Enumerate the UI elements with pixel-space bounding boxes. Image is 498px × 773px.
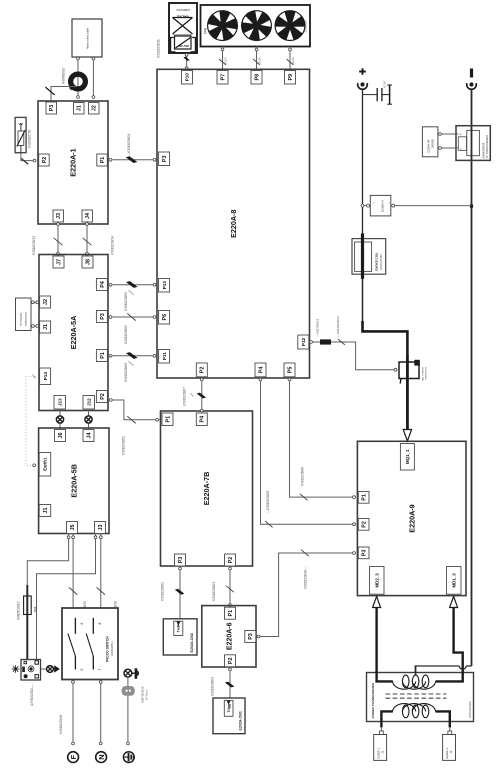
svg-text:—K3018238/12: —K3018238/12 (336, 316, 340, 337)
svg-text:E220A-8: E220A-8 (229, 210, 238, 238)
svg-text:A376002002—: A376002002— (30, 684, 34, 706)
connection circle at P2 (33, 159, 36, 162)
svg-text:F: F (69, 754, 78, 759)
slash P3-P6 (127, 313, 135, 320)
wire 7B P2 to E220A-6 P1 (229, 566, 231, 608)
svg-text:J1: J1 (77, 105, 83, 111)
port P1 of E220A-7B (162, 413, 173, 426)
wire hf box to J1 (31, 325, 39, 327)
svg-text:P5: P5 (287, 367, 293, 374)
svg-text:HF TRANSFORMER: HF TRANSFORMER (486, 135, 489, 158)
circles on P3-P3 wire (257, 635, 260, 638)
port MQ1_1 of E220A-9 (400, 444, 414, 471)
port Trigg of E202A-CN1 (224, 700, 233, 716)
svg-text:E220A-5A: E220A-5A (69, 316, 78, 350)
earth bar symbol (132, 668, 139, 679)
wire mains-cable to J1 (77, 57, 79, 99)
svg-text:J4: J4 (86, 433, 92, 439)
wire fan3 to P9 (289, 47, 291, 72)
wire minus to center tap (466, 665, 472, 667)
svg-text:N: N (97, 754, 106, 759)
svg-text:P2: P2 (228, 557, 234, 564)
svg-text:J7: J7 (56, 259, 62, 265)
svg-text:J1: J1 (380, 750, 384, 753)
svg-text:P4: P4 (200, 416, 206, 423)
svg-text:P9: P9 (288, 74, 294, 81)
block E220A-8 (157, 69, 310, 378)
connection circle valve wire (185, 53, 188, 56)
svg-text:5: 5 (80, 668, 84, 670)
port J4 of E220A-5B (83, 430, 94, 442)
port P1 of E220A-6 (225, 607, 236, 619)
primary winding (393, 704, 416, 712)
circle sense right (392, 204, 395, 207)
svg-text:HF TRANSF.: HF TRANSF. (20, 312, 23, 326)
svg-text:A39A0290026: A39A0290026 (25, 311, 28, 326)
port P2 of E220A-5A (96, 391, 107, 403)
terminal N (96, 752, 107, 763)
slash on P3-P3 wire (301, 550, 309, 556)
wire minus bus (471, 90, 473, 666)
primary lead right (436, 711, 450, 727)
svg-text:P12: P12 (301, 337, 306, 346)
wire J5a to fuse (27, 534, 68, 590)
svg-text:Mains transf.cable: Mains transf.cable (86, 27, 90, 49)
port P8 of E220A-8 (251, 71, 262, 85)
svg-text:A39B0023CP: A39B0023CP (176, 8, 190, 11)
svg-text:E220A-6: E220A-6 (226, 622, 233, 650)
box E202A-CN1 (213, 698, 245, 734)
port P13 of E220A-8 (159, 279, 170, 293)
wire switch to F (72, 680, 74, 744)
port P1 of E220A-5A (96, 350, 107, 362)
block E220A-7B (161, 411, 253, 566)
port P2 of E220A-7B (225, 554, 236, 566)
wire J3 to J7 (57, 222, 59, 256)
wire 5A P3 to P6 (108, 316, 157, 318)
port P9 of E220A-8 (285, 71, 296, 85)
dotted earth line P14-Earth1 (26, 377, 39, 466)
circle+slash fan1 wire (221, 48, 224, 51)
terminal minus (467, 82, 477, 89)
choke coil box (352, 239, 386, 275)
wire P12 with bead (309, 341, 320, 343)
slash on 7B P2 wire (226, 586, 234, 592)
svg-text:—K3018238/03: —K3018238/03 (266, 491, 270, 513)
port P10 of E220A-8 (182, 71, 193, 85)
port P3 of E220A-8 (159, 152, 170, 166)
svg-text:K3018230/48: K3018230/48 (59, 715, 63, 734)
twisted-pair mark P2-P4 (197, 393, 207, 399)
svg-text:K3018238/05: K3018238/05 (124, 292, 128, 311)
wire mains-cable to J2 (92, 57, 94, 99)
hf transformer box (456, 126, 490, 161)
center tap wire (415, 666, 417, 676)
port J1 of E220A-5A (40, 321, 51, 333)
fan 3 (275, 11, 305, 41)
circle+slash fan3 wire (289, 48, 292, 51)
svg-text:P7: P7 (220, 74, 226, 81)
arrow into MQ1_1 (403, 430, 411, 442)
port P1 of E220A-1 (97, 154, 108, 166)
arrow into MD2_3 (373, 596, 381, 607)
port J12 of E220A-5A (83, 396, 95, 410)
port P2 of E220A-9 (358, 519, 369, 531)
svg-text:K3018238/03: K3018238/03 (212, 582, 216, 601)
svg-text:P2: P2 (228, 658, 234, 665)
svg-text:MQ1_1: MQ1_1 (405, 449, 410, 464)
svg-text:K3018238/04: K3018238/04 (211, 677, 215, 696)
svg-text:(4 Turn): (4 Turn) (145, 690, 149, 700)
port P2 of E220A-1 (39, 154, 50, 166)
wire J13 to J6 (59, 409, 61, 430)
svg-text:P4: P4 (100, 281, 106, 288)
svg-text:K3018238/06: K3018238/06 (301, 467, 305, 486)
port P3 of E220A-6 (245, 631, 256, 643)
earth stub symbol (124, 669, 132, 677)
circles on 7B P2 wire (229, 567, 232, 570)
tick at P14 (33, 375, 36, 379)
svg-text:—K3018238/01: —K3018238/01 (127, 134, 131, 156)
svg-text:P1: P1 (100, 157, 106, 164)
svg-text:E220A-1: E220A-1 (69, 148, 78, 176)
secondary winding (393, 681, 416, 689)
flag on valve wire (183, 57, 189, 61)
svg-text:P2: P2 (42, 157, 48, 164)
port J1 of E220A-1 (74, 103, 85, 115)
port P4 of E220A-7B (196, 413, 207, 426)
svg-text:J8: J8 (85, 259, 91, 265)
svg-text:K3018238/09: K3018238/09 (124, 325, 128, 344)
thick bus through sensor (406, 355, 409, 430)
svg-text:J13: J13 (57, 398, 62, 406)
svg-text:P1: P1 (228, 610, 234, 617)
twisted-pair mark 7B P3 (175, 589, 185, 595)
thick fuse wire (26, 585, 28, 659)
valve box (169, 3, 197, 53)
svg-text:8: 8 (98, 622, 102, 624)
wire J3a jog to connector (37, 534, 96, 660)
wire component to P2 (21, 153, 35, 161)
slash on P3 stub (45, 87, 54, 95)
svg-text:Trigg: Trigg (227, 704, 231, 712)
fan box (201, 5, 311, 47)
gray slash P1-P11 (128, 361, 133, 365)
slash J5b wire (69, 587, 77, 594)
wire J5b to switch (72, 534, 74, 609)
box E202A-CN2 (163, 619, 197, 655)
port P3 of E220A-7B (175, 554, 186, 566)
node stub P3 to ferrite wire (51, 87, 78, 102)
slash on P12 wire (338, 339, 345, 345)
block E220A-6 (202, 606, 256, 667)
box E220A-1 J2 ref (443, 735, 456, 761)
choke thick bar (361, 233, 364, 279)
port Earth1 of E220A-5B (39, 453, 51, 477)
wedge Trigg (227, 701, 231, 705)
svg-text:MD2_3: MD2_3 (374, 573, 379, 588)
circles P2-7BP1 (109, 399, 112, 402)
svg-text:E220A-6: E220A-6 (381, 200, 385, 212)
hf transformer small box (16, 298, 32, 331)
thick wire MD1_3 to transformer (436, 608, 463, 682)
twisted-pair mark P4-P13 (126, 281, 138, 288)
slash on J3 wire (54, 238, 63, 245)
block E220A-5B (39, 428, 109, 534)
wire diode to hf 1 (438, 133, 458, 135)
svg-text:P13: P13 (162, 281, 167, 290)
capacitor branch wire (363, 94, 377, 96)
slash on component-P2 wire (21, 158, 28, 164)
wire fan2 to P8 (256, 47, 258, 72)
wire valve to P10 (186, 53, 188, 71)
svg-text:E202A-CN1: E202A-CN1 (239, 711, 243, 730)
svg-text:Txd4: Txd4 (177, 624, 181, 632)
svg-text:A4372000/08: A4372000/08 (468, 701, 472, 718)
svg-text:P3: P3 (178, 557, 184, 564)
circle+slash fan2 wire (255, 48, 258, 51)
wire plus bus lower (362, 279, 364, 322)
wire J3b to switch (100, 534, 102, 609)
svg-text:J1: J1 (43, 508, 49, 514)
svg-text:A431000083: A431000083 (379, 254, 383, 270)
port J2 of E220A-1 (89, 103, 100, 115)
wire fan1 to P7 (222, 47, 224, 72)
block E220A-9 (357, 441, 466, 595)
svg-text:K3018238/07: K3018238/07 (183, 387, 187, 406)
primary lead left (381, 711, 392, 727)
twisted-pair mark P2-CN1 (225, 682, 235, 688)
svg-text:P1: P1 (100, 352, 106, 359)
thick bus corner to sensor (363, 321, 408, 430)
ferrite ring A39880019 (69, 74, 85, 90)
circles hf box wires (32, 301, 35, 304)
svg-text:P2: P2 (200, 367, 206, 374)
wire E220A-6 P3 to E220A-9 P3 (256, 553, 356, 637)
svg-text:K3018238/08: K3018238/08 (124, 363, 128, 382)
slash on P4-P2 wire (265, 521, 273, 527)
svg-text:CHOKE COIL: CHOKE COIL (375, 252, 379, 271)
port P3 of E220A-9 (358, 547, 369, 559)
switch contact 8-7 (86, 618, 93, 670)
svg-text:J4: J4 (85, 213, 91, 219)
svg-text:—A55700822: —A55700822 (316, 318, 320, 337)
port MD2_3 of E220A-9 (370, 567, 385, 595)
star symbol (12, 665, 20, 673)
port J4 of E220A-1 (82, 210, 93, 222)
circles diode wires (439, 133, 442, 136)
svg-text:K3018238/11: K3018238/11 (157, 39, 161, 58)
svg-text:E220A-7B: E220A-7B (202, 472, 211, 506)
svg-text:K3018238/02: K3018238/02 (161, 582, 165, 601)
gray slash P4-P13 (128, 290, 133, 294)
svg-text:K4200B2700: K4200B2700 (28, 129, 32, 148)
thick wire MD2_3 to transformer (377, 608, 393, 682)
port J6 of E220A-5B (55, 430, 66, 442)
svg-text:DIODE: DIODE (431, 139, 435, 148)
slash on P5-P1 wire (300, 494, 308, 500)
circle at Earth1 (33, 464, 36, 467)
svg-text:PACCO SWITCH: PACCO SWITCH (106, 636, 110, 662)
svg-text:P3: P3 (362, 550, 368, 557)
svg-text:MD1_3: MD1_3 (451, 573, 456, 588)
block E220A-5A (39, 255, 108, 411)
port P1 of E220A-9 (358, 492, 369, 504)
port MD1_3 of E220A-9 (447, 567, 462, 595)
port J2 of E220A-5A (40, 296, 51, 308)
capacitor 4.7nF (377, 85, 392, 104)
svg-text:A39B028511: A39B028511 (110, 641, 114, 656)
junction dot minus bus (470, 205, 473, 208)
tick P2-P4 (191, 393, 194, 397)
power transformer box (367, 673, 474, 722)
connection circles P1-P3 wire (109, 158, 112, 161)
thick lead secondary left in box (377, 672, 393, 682)
svg-text:P3: P3 (49, 105, 55, 112)
svg-text:FAN: FAN (204, 27, 208, 34)
wire connector to lamp (41, 668, 47, 670)
port P12 of E220A-8 (298, 335, 309, 349)
svg-text:P1: P1 (165, 416, 171, 423)
svg-text:P8: P8 (254, 74, 260, 81)
circle at P12 (310, 341, 313, 344)
wire 5A P1 to P11 (108, 355, 157, 357)
small box E220A-6 sense (370, 195, 391, 216)
svg-text:J5: J5 (70, 525, 76, 531)
svg-text:7: 7 (98, 668, 102, 670)
port P5 of E220A-8 (284, 363, 295, 377)
circle J5a (67, 536, 70, 539)
svg-text:E220A-1: E220A-1 (445, 748, 449, 759)
svg-text:J2: J2 (43, 299, 49, 305)
svg-text:E220A-1: E220A-1 (376, 748, 380, 759)
port J3 of E220A-1 (53, 210, 64, 222)
circle before sensor (394, 368, 397, 371)
wire switch to N (100, 680, 102, 744)
circle J5b (72, 536, 75, 539)
wire E220A-6 P2 to CN1 (229, 667, 231, 699)
port J1 of E220A-5B (39, 505, 51, 517)
circles on P2-P4 wire (200, 378, 203, 381)
block E220A-1 (38, 101, 108, 224)
circles sense left (361, 204, 364, 207)
plus sign (359, 68, 366, 75)
wire P1 to E220A-8 P3 (108, 159, 157, 161)
wire earth stub down (127, 677, 129, 743)
mains inlet cable box (72, 19, 102, 57)
core dashes (386, 694, 447, 698)
port P4 of E220A-5A (96, 279, 107, 291)
svg-text:K3018238/13: K3018238/13 (32, 236, 36, 255)
circles on P5-P1 wire (288, 378, 291, 381)
wire 7B P3 to CN2 (179, 566, 181, 619)
port P2 of E220A-6 (225, 655, 236, 667)
port J8 of E220A-5A (82, 256, 93, 268)
port P4 of E220A-8 (255, 363, 266, 377)
svg-text:6: 6 (80, 622, 84, 624)
ferrite clamp on earth wire (122, 686, 135, 696)
switch contact 6-5 (68, 618, 76, 670)
svg-text:K3018238/02: K3018238/02 (122, 436, 126, 455)
block PACCO SWITCH (62, 608, 118, 680)
lamp symbol (47, 666, 54, 673)
connection circles J4-J8 (86, 223, 89, 226)
svg-text:P3: P3 (100, 313, 106, 320)
port P7 of E220A-8 (217, 71, 228, 85)
svg-text:J2: J2 (449, 750, 453, 753)
svg-text:J3: J3 (56, 213, 62, 219)
port P3 of E220A-1 (46, 102, 57, 114)
fan 1 (208, 11, 238, 41)
box E220A-1 J1 ref (374, 735, 387, 761)
wire E220A-8 P4 to E220A-9 P2 (261, 377, 356, 524)
svg-text:J1: J1 (43, 324, 49, 330)
svg-text:P11: P11 (162, 352, 167, 360)
wedge Txd4 (177, 622, 181, 626)
wire 5A P4 to P13 (108, 284, 157, 286)
svg-text:TRANSDUCER: TRANSDUCER (425, 366, 428, 380)
minus sign (470, 69, 473, 78)
svg-text:J3: J3 (98, 525, 104, 531)
port P14 of E220A-5A (40, 368, 51, 385)
svg-text:20 GA: 20 GA (225, 57, 228, 64)
circles P4-P13 (109, 283, 112, 286)
svg-text:K3018238/10—: K3018238/10— (303, 566, 307, 589)
wire sense right pin (391, 205, 472, 207)
svg-text:P2: P2 (100, 393, 106, 400)
slash J3b wire (97, 587, 105, 594)
svg-text:J6: J6 (58, 433, 64, 439)
current sensor box (399, 360, 420, 384)
wire plus bus (362, 90, 364, 322)
diode box E220A-5A (422, 127, 438, 157)
connection circles J3-J7 (57, 223, 60, 226)
svg-text:A3B0102813: A3B0102813 (17, 601, 21, 620)
wire J12 to J4 (88, 409, 90, 430)
arrow into MD1_3 (450, 596, 458, 607)
splice symbol on J13 wire (56, 416, 63, 423)
circles F wire (72, 681, 75, 684)
arrow into switch (54, 665, 60, 672)
twisted-pair mark P1-P11 (126, 352, 138, 359)
svg-text:P1: P1 (362, 494, 368, 501)
svg-text:P4: P4 (258, 367, 264, 374)
svg-text:P3: P3 (162, 156, 168, 163)
svg-text:E220A-5B: E220A-5B (69, 464, 78, 498)
circle earth wire end (127, 742, 130, 745)
wire 5A P2 to 7B P1 (108, 400, 160, 420)
port P6 of E220A-8 (159, 311, 170, 325)
circle J3a (94, 536, 97, 539)
connector block A376002002 (21, 660, 41, 681)
minus bus over hf box (471, 126, 473, 161)
terminal plus (358, 82, 368, 89)
svg-text:HALL CURRENT: HALL CURRENT (422, 366, 425, 381)
slash on P2-7BP1 (127, 416, 135, 423)
circles P3-P6 (109, 316, 112, 319)
port P3 of E220A-5A (96, 311, 107, 323)
port J13 of E220A-5A (54, 396, 66, 410)
slash on J4 wire (83, 238, 92, 245)
terminal F (68, 752, 79, 763)
connection circles mains cable (77, 57, 80, 60)
wire sense left pin (363, 205, 371, 207)
fan 2 (242, 11, 272, 41)
svg-text:J12: J12 (86, 398, 91, 406)
circles N wire (99, 681, 102, 684)
port P2 of E220A-8 (196, 363, 207, 377)
wire J4 to J8 (86, 222, 88, 256)
